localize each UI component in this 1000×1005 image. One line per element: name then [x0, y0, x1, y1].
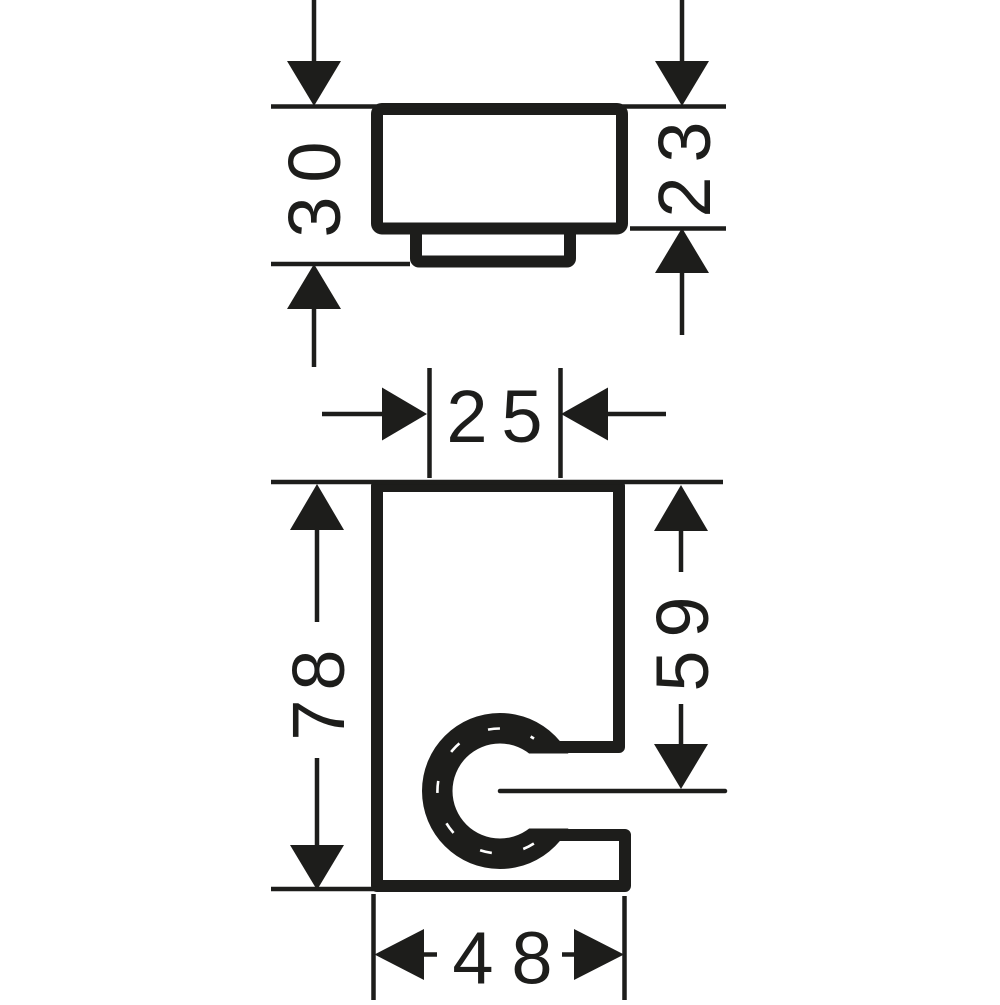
svg-text:5: 5: [501, 375, 542, 458]
svg-text:9: 9: [641, 596, 724, 637]
svg-text:5: 5: [641, 650, 724, 691]
svg-text:7: 7: [277, 699, 360, 740]
svg-text:3: 3: [273, 196, 356, 237]
svg-text:0: 0: [273, 141, 356, 182]
svg-text:8: 8: [277, 649, 360, 690]
svg-text:8: 8: [511, 917, 552, 1000]
svg-text:2: 2: [446, 375, 487, 458]
svg-text:3: 3: [643, 121, 726, 162]
svg-text:2: 2: [643, 176, 726, 217]
svg-text:4: 4: [452, 917, 493, 1000]
